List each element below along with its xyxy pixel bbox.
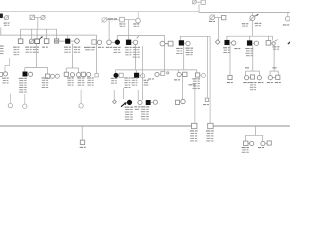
drop 227 bbox=[226, 36, 228, 40]
drop 56.6 bbox=[56, 29, 58, 39]
gen-IV square 162.8 bbox=[161, 72, 165, 76]
descent 183.7 bbox=[183, 46, 185, 70]
label block 196.3 bbox=[192, 78, 196, 79]
gen-IV square 277.8 bbox=[276, 75, 280, 79]
descent 274.1 bbox=[273, 46, 275, 71]
long marriage line y126 bbox=[0, 125, 192, 127]
gen-IV circle 157 bbox=[155, 72, 159, 76]
long drop 207.6 bbox=[207, 36, 209, 97]
drop 262.7 bbox=[262, 135, 264, 141]
label 117 bbox=[113, 47, 117, 48]
m. label 274.5 bbox=[273, 67, 277, 68]
gen-IV circle 30.5 bbox=[28, 72, 32, 76]
gen-IV small square 96.6 bbox=[95, 74, 98, 77]
gen-V diamond 114.5 bbox=[113, 100, 117, 104]
gen-III filled circle 117.4 bbox=[115, 40, 120, 45]
label under circle 212 bbox=[209, 21, 212, 22]
marriage 162-170.6 bbox=[165, 43, 168, 45]
drop 47.6 bbox=[47, 68, 49, 75]
gen-III circle 31.7 bbox=[29, 39, 34, 44]
gen-IV square 197.6 bbox=[196, 73, 200, 77]
gen-II filled square (left edge, cut) bbox=[0, 14, 3, 18]
label block 23 bbox=[19, 78, 24, 79]
label b/d under circle 6.6 bbox=[4, 23, 7, 24]
gen-III square 94 bbox=[92, 40, 96, 44]
label a.1907 bbox=[42, 47, 45, 48]
label 81 bbox=[77, 77, 81, 78]
descent 255.4 bbox=[254, 126, 256, 135]
label block 193.8 bbox=[190, 130, 194, 131]
drop 66.2 bbox=[65, 68, 67, 72]
gen-I square bbox=[201, 0, 205, 4]
tiny circle 167.8 bbox=[167, 72, 169, 74]
label block 210 bbox=[206, 130, 210, 131]
marriage 181.4-188 bbox=[184, 42, 186, 44]
gen-VI square 194.2 bbox=[192, 123, 197, 128]
proband arrow at square 37.1 bbox=[40, 38, 42, 40]
label b.2002 bbox=[275, 82, 278, 83]
gen-IV circle 78.6 bbox=[77, 73, 81, 77]
gen-V small square 207 bbox=[205, 98, 208, 101]
label under circle 138 bbox=[133, 23, 136, 24]
drop to circle 288 bbox=[287, 13, 289, 17]
gen-IV filled square 136.6 bbox=[134, 73, 139, 78]
label b.2004 bbox=[203, 104, 206, 105]
gen-II circle 104 deceased bbox=[102, 18, 107, 23]
descent 72.4 bbox=[71, 44, 73, 69]
gen-III square 268.4 bbox=[266, 41, 271, 46]
label 70.5 bbox=[67, 77, 71, 78]
gen-V circle 24.8 bbox=[23, 104, 27, 108]
long drop 96.6 bbox=[96, 35, 98, 73]
label block 35.8 bbox=[32, 47, 36, 48]
gen-IV square 121.1 bbox=[119, 73, 123, 77]
drop 31.7 bbox=[31, 29, 33, 39]
label 128.3 bbox=[125, 47, 129, 48]
gen-II circle 138 bbox=[136, 18, 141, 23]
marriage 270.3-277.8 bbox=[272, 77, 275, 79]
drop 109 from couple 104x122 bbox=[108, 20, 110, 40]
slash 135.5 bbox=[137, 36, 139, 38]
sibling bar1 y29 bbox=[21, 28, 57, 30]
gen-III circle 109 bbox=[107, 40, 112, 45]
gen-III square 46.6 bbox=[44, 39, 49, 44]
gen-III circle 233.7 bbox=[232, 41, 236, 45]
gen-V circle 140 bbox=[138, 100, 142, 104]
bar y135.3 bbox=[246, 134, 263, 136]
drop 138.2 bbox=[137, 90, 139, 100]
generation divider line (light) bbox=[0, 11, 199, 13]
gen-VII square 269.2 bbox=[267, 141, 271, 145]
gen-III filled square 181.4 bbox=[179, 41, 184, 46]
gen-II circle 212 deceased bbox=[210, 15, 215, 20]
gen-II square 32 deceased bbox=[30, 15, 34, 19]
label 45 bbox=[42, 77, 46, 78]
drop to circle 252 bbox=[251, 13, 253, 16]
m. label 247 bbox=[245, 67, 249, 68]
gen-III filled square 67.7 bbox=[65, 39, 70, 44]
gen-I child bar bbox=[199, 12, 290, 14]
gen-III circle 256.4 bbox=[254, 41, 258, 45]
gen-VII circle 262.9 bbox=[261, 141, 265, 145]
drop 37.1 bbox=[36, 29, 38, 39]
gen-V circle 155.3 bbox=[153, 100, 157, 104]
gen-IV square 66.3 bbox=[64, 72, 68, 76]
label a.1977 bbox=[148, 78, 151, 79]
gen-IV circle 88.7 bbox=[87, 72, 91, 76]
tiny label 192 bbox=[189, 84, 193, 85]
gen-III square 170.6 bbox=[168, 41, 173, 46]
drop 5.0 bbox=[4, 65, 6, 71]
gen-V label block 145 bbox=[141, 106, 146, 107]
proband arrow at circle 252.4 bbox=[255, 15, 257, 16]
bar8 y69.9 bbox=[116, 69, 197, 71]
label 5.5 bbox=[2, 78, 6, 79]
drop-in 0.8 bbox=[0, 27, 2, 35]
gen-VII square 245.8 bbox=[244, 141, 248, 145]
marriage 246.6-252.5 bbox=[249, 77, 251, 79]
gen-IV circle 72.4 bbox=[70, 73, 74, 77]
label block 245.3 bbox=[242, 147, 246, 148]
marriage 179.2-184.8 bbox=[181, 74, 182, 76]
label under circle 288 bbox=[283, 24, 287, 25]
long drop 24.8 bbox=[24, 94, 26, 104]
descent drop 252 bbox=[251, 21, 253, 37]
marriage 262.9-269.2 bbox=[265, 142, 267, 144]
gen-IV circle 57.4 bbox=[55, 74, 59, 78]
marriage 245.8-251.7 bbox=[248, 142, 250, 144]
gen-III square 20.6 bbox=[18, 39, 23, 44]
marriage 94-99.5 bbox=[96, 41, 97, 43]
drop 46.6 bbox=[46, 29, 48, 39]
marriage 67.7-77 bbox=[70, 40, 75, 42]
gen-IV circle 142.7 bbox=[141, 74, 145, 78]
label b.1982 bbox=[243, 82, 246, 83]
marriage 197.6-203.4 bbox=[200, 74, 202, 76]
marriage 227-233.7 bbox=[229, 42, 231, 44]
gen-V square 177.5 bbox=[175, 100, 179, 104]
label block 16.3 bbox=[13, 47, 17, 48]
right-edge arrow mark bbox=[287, 41, 290, 44]
gen-VI square 210.4 bbox=[208, 123, 213, 128]
gen-III filled square 227 bbox=[225, 40, 230, 45]
marriage line 104-122 bbox=[107, 19, 120, 21]
label 109 bbox=[106, 47, 110, 48]
long drop 210.1 bbox=[209, 36, 211, 123]
drop 136.6 bbox=[136, 70, 138, 73]
marriage 249.6-256.4 bbox=[252, 42, 254, 44]
drop 178.4 bbox=[177, 70, 179, 73]
descent 252.8 bbox=[252, 46, 254, 72]
gen-IV square 184.8 bbox=[183, 72, 187, 76]
marriage 56.6-67.7 bbox=[59, 40, 66, 42]
marriage 157-162.8 bbox=[159, 73, 161, 75]
gen-III circle 99.5 bbox=[97, 40, 101, 44]
marriage 116-121 bbox=[117, 74, 120, 76]
descent 230 single child bbox=[229, 45, 231, 75]
faint text right of circle 104 bbox=[108, 18, 114, 19]
label wide 90 bbox=[84, 47, 91, 48]
label 127.4 bbox=[124, 77, 128, 78]
marriage 109-117.4 bbox=[111, 41, 115, 43]
label b.1987 bbox=[227, 82, 230, 83]
sibling bar5 y36.2 bbox=[227, 35, 273, 37]
label 90.5 bbox=[87, 77, 91, 78]
gen-III filled square 249.6 bbox=[247, 41, 252, 46]
gen-IV filled square 25 bbox=[23, 72, 27, 76]
label 114 bbox=[111, 78, 115, 79]
drop 278.3 bbox=[277, 71, 279, 75]
gen-II circle 288 bbox=[286, 16, 291, 21]
gen-I circle (deceased) bbox=[192, 0, 196, 4]
label 276 bbox=[273, 46, 277, 47]
drop 115.6 bbox=[115, 70, 117, 73]
label b.1967 bbox=[174, 79, 177, 80]
marriage 136.6-142.7 bbox=[139, 75, 141, 77]
jog horiz bbox=[5, 64, 10, 66]
bar9 y71.1 bbox=[246, 70, 260, 72]
label m. d.1967 bbox=[255, 23, 259, 24]
marriage line 122-138 bbox=[124, 19, 135, 21]
marriage 25-30.5 bbox=[27, 73, 28, 75]
drop 123.4 bbox=[122, 88, 124, 99]
gen-III diamond 217.7 bbox=[215, 40, 220, 45]
gen-IV circle 52.5 bbox=[51, 74, 55, 78]
drop 249.7 bbox=[249, 36, 251, 40]
label 226.6 bbox=[223, 47, 227, 48]
long drop 10.4 bbox=[9, 94, 11, 104]
descent drop 218.5 to diamond bbox=[218, 18, 220, 40]
label 134.5 bbox=[131, 77, 135, 78]
gen-III square 56.6 w/ dot bbox=[55, 39, 59, 43]
drop 196.8 bbox=[196, 70, 198, 73]
gen-IV square 47.6 bbox=[45, 74, 49, 78]
label block 67.5 bbox=[64, 47, 68, 48]
label 179.3 bbox=[176, 48, 180, 49]
gen-III circle 77 bbox=[75, 39, 80, 44]
drop 164.6 long bbox=[164, 35, 166, 73]
descent drop 37.8 bbox=[37, 18, 39, 30]
gen-IV circle 259.3 bbox=[257, 76, 261, 80]
marriage 148.2-155.3 bbox=[150, 102, 153, 104]
label b.1903 d.1975 bbox=[242, 23, 246, 24]
drop 117.3 bbox=[116, 35, 118, 40]
gen-III filled square 128.6 bbox=[126, 40, 131, 45]
gen-II circle deceased bbox=[5, 16, 9, 20]
marriage line 32-43 bbox=[34, 17, 41, 19]
descent drop 128.7 bbox=[128, 20, 130, 40]
gen-IV filled circle 116 bbox=[114, 73, 119, 78]
bar6 y67.5 bbox=[25, 67, 48, 69]
drop 245.5 bbox=[245, 71, 247, 75]
long drop 81.1 bbox=[80, 90, 82, 104]
proband arrow at filled circle 129.5 bbox=[121, 103, 126, 107]
label b.1990 bbox=[267, 82, 270, 83]
drop 20.6 bbox=[20, 29, 22, 39]
drop 24.8 bbox=[24, 68, 26, 72]
label 146 bbox=[144, 80, 147, 81]
label 249.3 bbox=[245, 48, 249, 49]
gen-II circle 43 deceased bbox=[41, 15, 45, 19]
gen-V circle 10.4 bbox=[8, 103, 12, 107]
gen-V circle 183 bbox=[181, 99, 185, 103]
marriage 83.4-88.7 bbox=[86, 73, 87, 75]
label under square 122 bbox=[119, 23, 122, 24]
gen-III circle 162.4 bbox=[160, 41, 165, 46]
marriage line 212-224 bbox=[215, 17, 222, 19]
bar10 y71.1 bbox=[270, 70, 278, 72]
slash 273.6 bbox=[275, 40, 278, 42]
drop 182.4 bbox=[181, 77, 183, 99]
gen-III small circle 273.6 bbox=[272, 42, 275, 45]
gen-IV circle 203.4 faint bbox=[201, 73, 205, 77]
label b.2001 bbox=[80, 147, 83, 148]
drop 82.2 bbox=[81, 126, 83, 140]
jog vert 9.7 bbox=[9, 58, 11, 65]
label block 77 bbox=[74, 47, 78, 48]
drop 270.1 bbox=[269, 71, 271, 75]
drop 114.2 bbox=[113, 90, 115, 100]
label 189 bbox=[185, 48, 189, 49]
label block 28.6 bbox=[25, 47, 29, 48]
marriage 78.6-83.4 bbox=[80, 74, 83, 76]
long drop 142.6 bbox=[142, 46, 144, 100]
gen-III proband square 37.1 bbox=[35, 39, 40, 44]
gen-I descent drop bbox=[198, 4, 200, 12]
gen-IV circle 179.2 bbox=[177, 73, 181, 77]
marriage line bbox=[3, 17, 5, 19]
marriage 268.4-273.6 bbox=[271, 42, 272, 44]
label block 253 bbox=[250, 82, 254, 83]
marriage 177.5-183 bbox=[180, 101, 181, 103]
drop 272.5 bbox=[272, 36, 274, 40]
gen-IV circle 246.6 bbox=[245, 76, 249, 80]
marriage 128.6-135.5 bbox=[131, 41, 133, 43]
sibling bar3 y35.4 bbox=[117, 34, 164, 36]
drop 259.6 bbox=[259, 71, 261, 75]
drop 180.3 bbox=[179, 36, 181, 40]
drop 67.8 bbox=[67, 35, 69, 39]
sibling bar2 y35 bbox=[0, 34, 97, 36]
gen-VII circle 251.7 bbox=[250, 141, 254, 145]
descent 135.6 bbox=[135, 45, 137, 70]
gen-VI square 82.5 bbox=[80, 140, 84, 144]
gen-II square 122 bbox=[120, 17, 125, 22]
descent 36.6 bbox=[36, 44, 38, 68]
gen-V circle 81.1 bbox=[79, 104, 83, 108]
gen-V filled square 148.2 bbox=[146, 100, 150, 104]
gen-IV circle 270.3 bbox=[268, 76, 272, 80]
label 100.8 bbox=[98, 47, 101, 48]
drop 78.6 bbox=[78, 68, 80, 73]
gen-V label block 129 bbox=[125, 107, 130, 108]
gen-III circle 188 bbox=[186, 41, 190, 45]
gen-II square 224 bbox=[222, 15, 226, 19]
label b.1960 bbox=[234, 48, 237, 49]
label b.1988 bbox=[258, 82, 261, 83]
long drop 194.9 bbox=[194, 86, 196, 124]
gen-IV square 252.5 bbox=[250, 75, 254, 79]
drop 268.4 bbox=[267, 36, 269, 40]
gen-IV square left edge (cut) bbox=[0, 72, 3, 76]
label a.1984 bbox=[258, 147, 261, 148]
gen-V label 137 bbox=[134, 106, 137, 107]
gen-III circle 135.5 bbox=[133, 40, 138, 45]
gen-IV circle 5.5 bbox=[3, 72, 7, 76]
gen-IV square 230 bbox=[228, 75, 232, 79]
left-edge text fragment bbox=[0, 46, 4, 47]
marriage 47.6-52.5 bbox=[50, 75, 51, 77]
gen-II circle 252 deceased bbox=[250, 16, 255, 21]
gen-I marriage line bbox=[196, 1, 201, 3]
inner adopted dot bbox=[56, 40, 58, 42]
gen-IV square 83.4 bbox=[81, 72, 85, 76]
label 136 bbox=[133, 47, 137, 48]
bar7 y68 bbox=[66, 67, 78, 69]
gen-V filled circle 129.5 bbox=[127, 100, 132, 105]
drop 245.6 bbox=[245, 135, 247, 141]
bar4 y36.3 bbox=[180, 35, 209, 37]
drop to circle 138 bbox=[137, 12, 139, 19]
